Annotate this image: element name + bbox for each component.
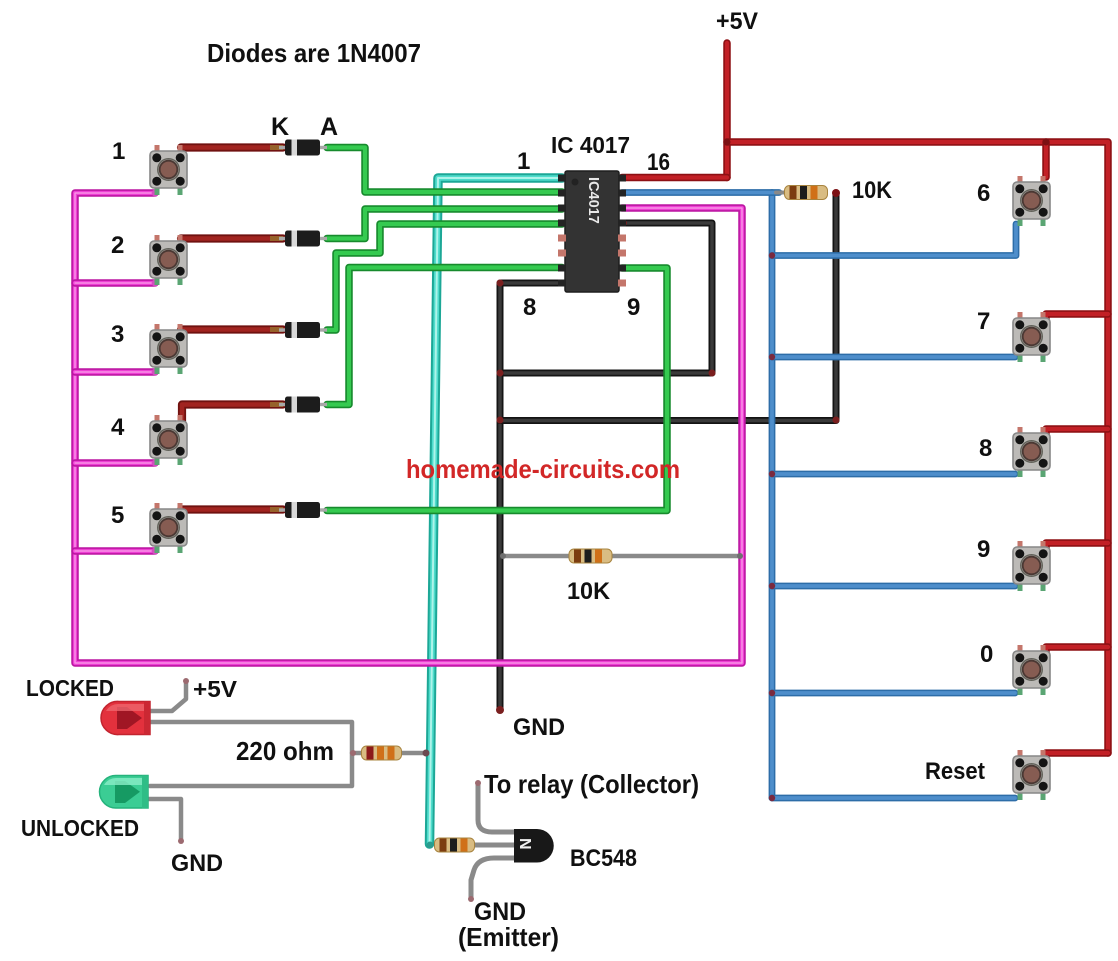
wire pin16 red — [622, 174, 727, 182]
svg-text:+5V: +5V — [193, 676, 238, 702]
pushbutton S8 — [1013, 427, 1050, 477]
junction black loop corner — [709, 370, 716, 377]
pushbutton S5 — [150, 503, 187, 553]
cap collector lead — [475, 780, 481, 786]
cap 10K mid right — [737, 553, 743, 559]
wire magenta stub button2 — [75, 279, 155, 287]
wire red to button 8 — [1046, 429, 1108, 434]
wire 220 ohm to cyan — [352, 751, 424, 756]
wire blue to button 7 — [772, 354, 1015, 361]
junction black bus — [497, 370, 504, 377]
junction GND end cap — [496, 706, 504, 714]
wire magenta stub button3 — [75, 368, 155, 376]
wire blue rail vertical — [769, 193, 776, 799]
wire transistor collector lead — [478, 784, 514, 832]
resistor R3 220 ohm — [362, 746, 402, 760]
svg-text:3: 3 — [111, 321, 124, 348]
junction cyan base cap — [427, 842, 434, 849]
junction blue rail reset — [769, 795, 775, 801]
junction magenta pin end b2 — [152, 280, 159, 287]
wire lead 10K top — [776, 191, 786, 195]
resistor R4 base — [435, 838, 475, 852]
wire 10K to ground bus black — [500, 194, 836, 421]
wire gray 10K middle — [503, 554, 740, 559]
wire green diode2 to pin3 — [327, 209, 562, 239]
junction black 10K corner — [833, 417, 840, 424]
cap 220 left — [350, 750, 356, 756]
wire red to button 0 — [1046, 647, 1108, 652]
pushbutton S9 — [1013, 541, 1050, 591]
wire transistor base lead — [474, 843, 514, 848]
IC U1 4017 — [558, 171, 626, 292]
svg-text:0: 0 — [980, 641, 993, 668]
svg-text:homemade-circuits.com: homemade-circuits.com — [406, 454, 680, 484]
wire red to button Reset — [1046, 753, 1108, 758]
cap 10K mid left — [500, 553, 506, 559]
wire green diode1 to pin2 — [327, 148, 562, 193]
svg-text:5: 5 — [111, 502, 124, 529]
pushbutton S4 — [150, 415, 187, 465]
wire red drop to button 6 — [1042, 142, 1050, 177]
svg-text:IC4017: IC4017 — [585, 177, 601, 224]
junction 220ohm cap at cyan — [423, 750, 430, 757]
svg-text:6: 6 — [977, 180, 990, 207]
wire button3 to diode3 — [181, 325, 283, 333]
junction magenta pin end b4 — [152, 460, 159, 467]
junction +5V branch — [724, 139, 731, 146]
svg-text:10K: 10K — [567, 578, 611, 605]
junction black pin8 corner — [497, 280, 504, 287]
svg-text:To relay (Collector): To relay (Collector) — [484, 769, 699, 799]
wire red to button 7 — [1046, 314, 1108, 319]
wire +5V down to pin16 — [723, 43, 731, 178]
svg-text:K: K — [271, 113, 289, 141]
svg-text:N: N — [516, 838, 533, 850]
wire blue to button 9 — [772, 583, 1015, 590]
wire blue to button 8 — [772, 471, 1015, 478]
svg-text:7: 7 — [977, 308, 990, 335]
wire transistor emitter lead — [471, 858, 514, 898]
junction blue rail 9 — [769, 583, 775, 589]
svg-text:9: 9 — [627, 294, 640, 321]
diode D1 — [279, 140, 327, 156]
wire red to button 9 — [1046, 543, 1108, 548]
svg-text:Reset: Reset — [925, 758, 985, 785]
diode D4 — [279, 397, 327, 413]
wire pin8 black to GND — [500, 283, 562, 710]
junction red button6 drop — [1043, 139, 1050, 146]
pushbutton S6 — [1013, 176, 1050, 226]
wire green diode3 to pin4 — [327, 224, 562, 330]
svg-text:4: 4 — [111, 414, 125, 441]
svg-text:+5V: +5V — [716, 8, 758, 35]
junction black pin8 cap — [558, 280, 564, 286]
wire button1 to diode1 — [181, 143, 283, 151]
copper tip wire button4 to diode4 — [270, 402, 283, 407]
pushbutton S2 — [150, 235, 187, 285]
pushbutton S0 — [1013, 645, 1050, 695]
pushbutton S7 — [1013, 312, 1050, 362]
copper tip wire button3 to diode3 — [270, 327, 283, 332]
copper tip wire button5 to diode5 — [270, 507, 283, 512]
svg-text:IC 4017: IC 4017 — [551, 132, 630, 158]
wire blue to button 6 — [772, 224, 1016, 256]
svg-text:(Emitter): (Emitter) — [458, 922, 559, 952]
resistor R1 10K top — [785, 186, 828, 200]
wire pin15 blue to 10K — [622, 189, 779, 196]
svg-text:1: 1 — [112, 138, 125, 165]
svg-text:GND: GND — [513, 714, 565, 741]
wire magenta common loop to pin14 — [75, 193, 742, 663]
junction magenta pin end b1 — [152, 190, 159, 197]
svg-text:2: 2 — [111, 232, 124, 259]
copper tip wire button2 to diode2 — [270, 236, 283, 241]
junction blue rail 7 — [769, 354, 775, 360]
wire pin13 black loop — [500, 223, 712, 373]
wire button2 to diode2 — [181, 234, 283, 242]
svg-text:16: 16 — [647, 149, 670, 176]
wire pin1 cyan to base resistor — [430, 178, 563, 844]
wire green LED cathode to GND stub — [148, 799, 181, 840]
junction blue rail 0 — [769, 690, 775, 696]
wire red LED anode to +5V — [150, 682, 186, 711]
svg-text:BC548: BC548 — [570, 845, 637, 872]
wire button4 to diode4 — [182, 405, 283, 424]
svg-text:220 ohm: 220 ohm — [236, 736, 334, 766]
wire magenta stub button4 — [75, 459, 155, 467]
copper tip wire button1 to diode1 — [270, 145, 283, 150]
wire LED loop to 220 ohm — [150, 722, 352, 786]
LED LOCKED red — [101, 701, 150, 734]
svg-text:A: A — [320, 113, 338, 141]
wire blue to button Reset — [772, 795, 1015, 802]
svg-text:GND: GND — [171, 850, 223, 877]
transistor Q1 BC548 — [514, 829, 554, 863]
pushbutton Reset — [1013, 750, 1050, 800]
resistor R2 10K middle — [569, 549, 612, 563]
diode D5 — [279, 502, 327, 518]
wire green diode4 to pin7 — [327, 268, 562, 405]
junction magenta pin end b3 — [152, 369, 159, 376]
cap emitter lead — [468, 896, 474, 902]
svg-text:9: 9 — [977, 536, 990, 563]
wire button5 to diode5 — [181, 505, 283, 513]
junction blue rail 6 — [769, 252, 775, 258]
svg-text:UNLOCKED: UNLOCKED — [21, 815, 139, 841]
pushbutton S3 — [150, 324, 187, 374]
svg-text:10K: 10K — [852, 177, 893, 204]
diode D2 — [279, 231, 327, 247]
junction black pin13 cap — [621, 220, 627, 226]
junction 10K right cap — [832, 189, 840, 197]
cap +5V lead — [183, 678, 189, 684]
svg-text:Diodes are 1N4007: Diodes are 1N4007 — [207, 38, 421, 68]
cap green LED gnd lead — [178, 838, 184, 844]
wire blue to button 0 — [772, 690, 1015, 697]
junction blue rail 8 — [769, 471, 775, 477]
svg-text:8: 8 — [523, 294, 536, 321]
pushbutton S1 — [150, 145, 187, 195]
LED UNLOCKED green — [100, 775, 149, 808]
junction black bus 2 — [497, 417, 504, 424]
junction magenta pin end b5 — [152, 548, 159, 555]
diode D3 — [279, 322, 327, 338]
wire green pin10 to diode5 — [327, 268, 667, 511]
svg-text:1: 1 — [517, 148, 530, 175]
wire magenta stub button5 — [75, 547, 155, 555]
wire +5V top rail — [727, 142, 1108, 753]
svg-text:LOCKED: LOCKED — [26, 675, 114, 701]
svg-text:8: 8 — [979, 435, 992, 462]
